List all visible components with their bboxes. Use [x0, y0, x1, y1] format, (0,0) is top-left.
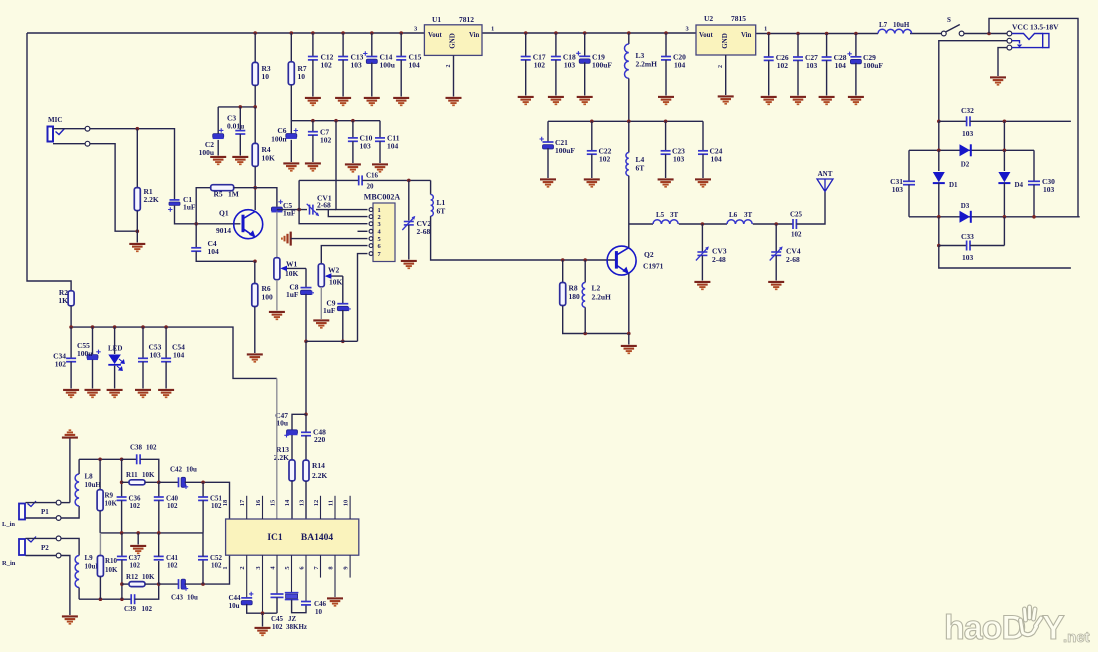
wire to C14	[371, 33, 373, 56]
crystal JZ 38KHz	[285, 593, 299, 600]
capacitor C5 1uF (polarized)	[271, 207, 282, 212]
svg-text:10u: 10u	[187, 594, 198, 602]
wire C45 bottom	[276, 597, 278, 613]
wire D1 col upper	[938, 121, 940, 150]
wire to C47	[292, 414, 306, 429]
svg-text:P1: P1	[41, 508, 49, 516]
svg-text:R14: R14	[312, 461, 325, 470]
trimmer capacitor CV1 2-68	[310, 205, 313, 215]
ground R6	[247, 354, 263, 361]
svg-text:9014: 9014	[216, 226, 231, 235]
resistor R1 2.2K	[134, 188, 140, 211]
svg-text:Vin: Vin	[469, 32, 480, 39]
junction D3 row/D4	[1003, 215, 1007, 219]
junction C32 row/D4 col	[1003, 120, 1007, 124]
svg-text:IC1: IC1	[267, 533, 283, 543]
wire C36 bottom	[121, 500, 123, 533]
junction rail/L3	[627, 31, 631, 35]
connector P1 jack	[19, 504, 25, 520]
wire L5 to L6	[679, 223, 727, 225]
svg-text:102: 102	[146, 444, 157, 452]
svg-text:ANT: ANT	[818, 170, 833, 178]
wire C23 to ground	[665, 154, 667, 178]
wire C41 top	[158, 533, 160, 557]
capacitor C28 104	[822, 57, 832, 60]
junction top rail/C14	[370, 31, 374, 35]
svg-text:102: 102	[142, 605, 153, 613]
svg-text:102: 102	[55, 360, 67, 369]
junction LED rail	[141, 325, 145, 329]
diode D1	[933, 172, 945, 183]
wire to R8	[562, 260, 564, 283]
svg-text:W1: W1	[286, 260, 298, 269]
capacitor C7 102	[308, 132, 318, 135]
wire L8 top	[78, 459, 80, 474]
svg-text:104: 104	[711, 155, 723, 164]
capacitor C14 100u (polarized)	[366, 57, 377, 64]
pin 6 of IC1 to C46	[305, 555, 307, 601]
junction mid rail/C40	[157, 531, 161, 535]
trimmer capacitor CV3 2-48	[697, 252, 707, 255]
svg-text:GND: GND	[721, 33, 729, 49]
wire C6 to ground	[290, 140, 292, 162]
ground C17	[518, 97, 534, 104]
inductor L9 10uF	[75, 556, 79, 588]
wire to L2	[584, 260, 586, 283]
capacitor C55 100u (polarized)	[87, 355, 98, 360]
inductor L7 10uH	[878, 29, 912, 33]
ground C7	[305, 163, 321, 170]
wire to C27	[797, 34, 799, 58]
svg-text:104: 104	[835, 61, 847, 70]
svg-text:104: 104	[387, 142, 399, 151]
svg-text:10uH: 10uH	[893, 21, 910, 29]
svg-text:100uF: 100uF	[592, 61, 612, 70]
junction LED rail	[164, 325, 168, 329]
wire C43 to pin1	[185, 555, 230, 584]
junction C8 bottom	[304, 340, 308, 344]
junction emitter bottom	[627, 332, 631, 336]
junction C51 top	[201, 481, 205, 485]
svg-text:Q1: Q1	[219, 209, 229, 218]
capacitor C33 103	[967, 241, 970, 251]
wire D4 col to C33 row	[1003, 217, 1005, 246]
capacitor C37 102	[117, 556, 127, 559]
junction mid rail/C7	[311, 119, 315, 123]
wire Q2 collector	[628, 224, 630, 248]
svg-text:16: 16	[255, 499, 262, 506]
wire C52 lower	[202, 560, 204, 584]
wire to C3	[239, 107, 241, 131]
svg-text:103: 103	[360, 142, 372, 151]
junction rail/C29	[854, 32, 858, 36]
trimmer capacitor CV2 2-68	[404, 222, 414, 225]
wire D4 col upper	[1003, 121, 1005, 150]
wire C39 to C41 col	[135, 584, 159, 599]
junction L2 top	[583, 258, 587, 262]
svg-text:13: 13	[298, 499, 305, 506]
wire to C13	[342, 33, 344, 57]
capacitor C41 102	[154, 556, 164, 559]
junction C3 node	[239, 105, 243, 109]
wire C13 to ground	[342, 60, 344, 97]
capacitor C42 10u (polarized)	[179, 477, 186, 487]
wire mid rail to ground	[137, 533, 139, 545]
wire R10 top (gray)	[99, 533, 101, 556]
node P1 tip contact	[56, 500, 61, 505]
ground U1	[446, 98, 462, 105]
junction C36 col top	[120, 458, 124, 462]
wire R12 to node	[145, 583, 159, 585]
svg-text:L2: L2	[592, 284, 601, 293]
wire D2 row	[909, 149, 1034, 151]
wire P1 tip	[26, 502, 57, 504]
svg-text:11: 11	[327, 500, 334, 506]
wire MBC002A pin6 to W2	[321, 246, 367, 264]
resistor R9 10K	[97, 490, 103, 511]
wire D3 row	[909, 216, 1080, 218]
capacitor C27 103	[793, 57, 803, 60]
svg-text:102: 102	[321, 61, 333, 70]
diode D4	[998, 172, 1010, 183]
wire bottom rail left	[79, 598, 131, 600]
wire C7 to ground	[312, 135, 314, 162]
wire to C17	[525, 33, 527, 57]
capacitor C9 1uF (polarized)	[337, 304, 348, 311]
diode D3	[960, 211, 971, 223]
wire to C38	[122, 458, 137, 460]
svg-text:102: 102	[599, 155, 611, 164]
capacitor C21 100uF (polarized)	[543, 142, 554, 149]
junction mid rail ground stub	[136, 531, 140, 535]
junction ground rail IC1	[261, 611, 265, 615]
wire R1 to ground	[136, 211, 138, 243]
junction R12 left	[120, 582, 124, 586]
wire to C11	[379, 121, 381, 138]
capacitor C51 102	[198, 497, 208, 500]
junction top rail/C12	[311, 31, 315, 35]
inductor L6 3T	[727, 220, 752, 224]
svg-text:2.2K: 2.2K	[274, 453, 289, 462]
svg-text:C43: C43	[171, 594, 184, 602]
junction R8 top	[561, 258, 565, 262]
node P1 sleeve contact	[56, 516, 61, 521]
wire C33 row right	[970, 245, 1004, 247]
wire P2 sleeve to ground	[61, 556, 70, 616]
wire to C43	[159, 583, 179, 585]
junction MIC/R1	[136, 127, 140, 131]
wire C9 down	[342, 310, 344, 341]
wire to C18	[555, 33, 557, 57]
svg-text:U1: U1	[432, 15, 441, 24]
inductor L1 6T	[431, 195, 434, 217]
junction R5/collector	[253, 186, 257, 190]
capacitor C4 104	[191, 248, 201, 251]
wire jack pin2 to bridge	[939, 41, 1007, 122]
wire MBC002A pin2	[328, 210, 367, 217]
ground DC jack	[990, 77, 1006, 84]
svg-text:2.2K: 2.2K	[144, 195, 159, 204]
wire C25 to antenna	[796, 192, 825, 224]
ground Q2	[621, 346, 637, 353]
wire C16 left / pin3	[299, 180, 367, 223]
svg-text:D1: D1	[949, 181, 958, 189]
wire to C53	[142, 327, 144, 358]
wire to R9	[99, 459, 101, 489]
ground C28	[819, 97, 835, 104]
junction rail/C19	[583, 31, 587, 35]
junction D3 row/C30	[1032, 215, 1036, 219]
wire to C7	[312, 121, 314, 132]
svg-text:220: 220	[314, 435, 326, 444]
svg-text:103: 103	[962, 129, 974, 138]
svg-text:7812: 7812	[459, 15, 474, 24]
ground C11	[372, 164, 388, 171]
wire CV1 to pin1 node	[316, 209, 336, 211]
svg-text:100uF: 100uF	[863, 61, 883, 70]
wire to R12	[122, 583, 129, 585]
wire mid rail stereo	[100, 532, 203, 534]
pin 17 of IC1 stub	[246, 496, 248, 519]
ground P2	[62, 616, 78, 623]
switch S contact right	[959, 31, 964, 36]
capacitor C17 102	[521, 57, 531, 60]
wire to C54	[165, 327, 167, 358]
inductor L2 2.2uH	[582, 283, 585, 308]
pin 7 of MBC002A	[369, 252, 373, 256]
junction R9 top	[98, 458, 102, 462]
svg-text:102: 102	[211, 562, 222, 570]
ground C55	[85, 390, 101, 397]
wire to L1	[430, 180, 432, 194]
wire to R11	[122, 481, 129, 483]
ground C2	[210, 157, 226, 164]
svg-text:2.2K: 2.2K	[312, 471, 327, 480]
svg-text:6T: 6T	[437, 207, 446, 216]
wire C40 bottom	[158, 500, 160, 533]
wire C26 to ground	[768, 60, 770, 95]
wire to C42	[159, 481, 178, 483]
svg-text:2-48: 2-48	[712, 255, 726, 264]
wire C31 col lower	[908, 185, 910, 217]
svg-text:10K: 10K	[105, 566, 118, 574]
capacitor C11 104	[375, 138, 385, 141]
wire P1 sleeve to L8	[61, 506, 79, 518]
svg-text:102: 102	[211, 502, 222, 510]
junction R10 bottom	[99, 597, 103, 601]
wire ground to P1 tip	[69, 439, 71, 503]
resistor R10 10K	[97, 556, 103, 577]
wire C36 col upper	[121, 459, 123, 497]
svg-text:1: 1	[378, 207, 381, 214]
svg-text:100: 100	[262, 293, 274, 302]
svg-text:180: 180	[569, 292, 581, 301]
svg-text:103: 103	[673, 155, 685, 164]
inductor L3 2.2mH	[624, 44, 628, 78]
wire R5 to C5	[234, 188, 277, 207]
svg-text:GND: GND	[449, 33, 457, 49]
wire C51 top stub	[202, 482, 204, 497]
svg-text:102: 102	[130, 502, 141, 510]
pin 4 of MBC002A	[369, 229, 373, 233]
wire to C19	[584, 33, 586, 56]
wire C3 to ground	[239, 134, 241, 156]
ground C14	[364, 98, 380, 105]
svg-text:103: 103	[1043, 185, 1055, 194]
svg-text:0.01u: 0.01u	[227, 122, 244, 131]
svg-text:10: 10	[262, 72, 270, 81]
capacitor C36 102	[117, 497, 127, 500]
junction top rail/C15	[399, 31, 403, 35]
svg-text:LED: LED	[108, 345, 122, 353]
wire C48 to R14	[305, 436, 307, 460]
wire R10 bottom	[99, 577, 101, 600]
LED indicator	[108, 355, 121, 365]
wire C14 to ground	[371, 63, 373, 97]
W2 wiper arrow	[326, 275, 342, 277]
svg-text:C39: C39	[124, 605, 137, 613]
wire to C22	[591, 121, 593, 151]
junction CV4	[774, 222, 778, 226]
ground C19	[577, 97, 593, 104]
svg-text:C44: C44	[228, 594, 241, 602]
svg-text:100u: 100u	[77, 349, 92, 358]
ground C3	[232, 157, 248, 164]
junction top rail/R7	[290, 31, 294, 35]
svg-text:C42: C42	[170, 466, 183, 474]
capacitor C1 1uF (polarized)	[170, 200, 180, 203]
svg-text:18: 18	[222, 499, 229, 506]
wire W2 to ground (gray)	[320, 287, 322, 319]
potentiometer W1 body	[274, 258, 280, 280]
svg-text:17: 17	[239, 499, 246, 506]
pin 2 of IC1 to C44	[246, 555, 248, 597]
wire MBC002A pin7 down	[358, 254, 368, 342]
junction rail2/C23	[664, 120, 668, 124]
capacitor C43 10u (polarized)	[179, 579, 186, 589]
svg-text:3T: 3T	[744, 211, 753, 219]
wire C27 to ground	[797, 60, 799, 95]
ground C6	[283, 163, 299, 170]
svg-text:102: 102	[272, 623, 283, 631]
svg-text:10: 10	[343, 500, 350, 507]
pin 5 of IC1 to crystal	[291, 555, 293, 592]
wire L2 bottom	[584, 307, 586, 333]
wire C16 row right	[362, 179, 431, 181]
junction rail2/L3-L4	[627, 120, 631, 124]
ground stereo mid	[130, 546, 146, 553]
svg-text:1: 1	[222, 566, 229, 569]
pin 16 of IC1 stub	[262, 496, 264, 519]
resistor R6 100	[252, 284, 258, 307]
capacitor C26 102	[764, 57, 774, 60]
svg-text:104: 104	[208, 247, 220, 256]
wire L3 down	[628, 78, 630, 121]
wire to C28	[826, 34, 828, 58]
svg-text:103: 103	[806, 61, 818, 70]
wire to C23	[665, 121, 667, 151]
wire C29 to ground	[855, 63, 857, 96]
capacitor C3 0.01u	[235, 131, 245, 134]
pin 6 of MBC002A	[369, 244, 373, 248]
DC jack pin 3	[1007, 45, 1012, 50]
svg-text:10u: 10u	[229, 602, 240, 610]
wire C41 col	[158, 561, 160, 584]
junction L2 bottom	[583, 332, 587, 336]
switch S contact left	[941, 31, 946, 36]
wire to C34	[70, 327, 72, 358]
connector P2 jack	[19, 539, 25, 555]
junction C9 bottom	[341, 340, 345, 344]
wire C47 to R13	[291, 435, 293, 460]
wire C32 row left	[939, 120, 967, 122]
capacitor C8 1uF (polarized)	[301, 288, 312, 295]
wire C34 to ground	[70, 362, 72, 389]
wire to LED	[114, 327, 116, 354]
svg-text:VCC: VCC	[1012, 23, 1028, 32]
wire L7 to switch	[910, 33, 941, 35]
svg-text:102: 102	[167, 562, 178, 570]
capacitor C40 102	[154, 497, 164, 500]
wire MIC sleeve down	[90, 144, 138, 232]
wire to C55	[92, 327, 94, 354]
inductor L4 6T	[626, 153, 629, 176]
svg-text:R10: R10	[105, 557, 118, 565]
antenna ANT	[817, 179, 833, 192]
wire L1 to Q2 base	[431, 216, 617, 260]
svg-text:3: 3	[378, 221, 381, 228]
wire C8 down	[305, 294, 307, 342]
wire MIC tip to C1	[90, 129, 175, 200]
svg-text:1: 1	[491, 26, 494, 33]
svg-text:haoD: haoD	[944, 609, 1025, 647]
resistor R4 10K	[252, 143, 258, 166]
DC jack pin 1	[1007, 31, 1012, 36]
svg-text:U2: U2	[704, 14, 713, 23]
svg-text:C38: C38	[130, 444, 143, 452]
wire W2 wiper to C9	[342, 276, 344, 303]
wire C21 to ground	[547, 148, 549, 178]
junction C52 bottom	[201, 582, 205, 586]
capacitor C53 103	[138, 358, 148, 361]
capacitor C52 102	[198, 556, 208, 559]
junction rail/C17	[524, 31, 528, 35]
pin 9 of IC1 stub	[349, 555, 351, 577]
svg-text:R_in: R_in	[2, 560, 16, 567]
node P2 tip contact	[56, 536, 61, 541]
wire pin15 column (gray)	[276, 378, 278, 519]
wire bottom rail right block	[939, 246, 1071, 269]
wire L4 to RF node	[628, 176, 630, 224]
pin 10 of IC1 stub	[349, 496, 351, 519]
wire to C2	[217, 107, 219, 134]
ground C18	[548, 97, 564, 104]
capacitor C12 102	[308, 57, 318, 60]
diode D2	[960, 144, 971, 156]
IC U-IC1 BA1404 body	[226, 519, 359, 555]
wire C33 row left	[939, 245, 967, 247]
junction top rail/R3	[253, 31, 257, 35]
capacitor C38 102	[137, 454, 140, 464]
svg-text:C45: C45	[271, 615, 284, 623]
ground C23	[658, 179, 674, 186]
resistor R11 10K	[129, 480, 145, 485]
wire P2 tip to L9	[61, 538, 79, 555]
wire C2 to ground	[217, 140, 219, 156]
svg-text:L5: L5	[656, 211, 665, 219]
wire to CV3	[701, 224, 703, 252]
svg-text:Q2: Q2	[644, 250, 654, 259]
